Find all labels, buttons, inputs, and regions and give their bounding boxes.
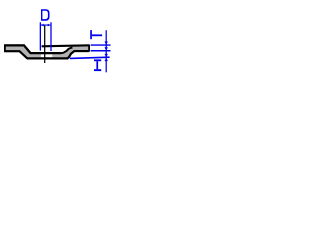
gray fill: right slope band + right rim face bbox=[61, 45, 90, 60]
D dimension: left arrowhead bbox=[41, 24, 44, 27]
outline: rim bottom, slope bottom, web bottom, right rise, right rim bottom bbox=[4, 51, 89, 58]
label T (rotated): stem bbox=[92, 34, 102, 36]
arrowhead up to H line from below bbox=[105, 58, 108, 61]
gray fill: left rim + depressed slope + web bbox=[4, 44, 62, 59]
outline: rim top, slope top, web top bbox=[4, 45, 61, 53]
left end cap bbox=[4, 45, 6, 52]
H extension line (web bottom level) bbox=[70, 57, 110, 58]
top silhouette edge of tilted wheel bbox=[42, 45, 90, 46]
arrowhead down to H line bbox=[105, 54, 108, 57]
D dimension: arrow line bbox=[41, 24, 50, 26]
T dimension: bottom extension line (rim bottom level) bbox=[91, 50, 111, 52]
dimension vertical line at right bbox=[105, 30, 107, 72]
D dimension: right arrowhead bbox=[48, 24, 51, 27]
label H (rotated): crossbar bbox=[96, 61, 98, 69]
arrowhead down to T bottom line bbox=[105, 47, 108, 50]
label T (rotated): crossbar bbox=[90, 30, 92, 39]
background bbox=[0, 0, 113, 74]
arrowhead down to T top line bbox=[105, 42, 108, 45]
label D bbox=[41, 9, 50, 21]
label H (rotated): bottom bar bbox=[94, 69, 101, 71]
T dimension: top extension line (rim top level) bbox=[91, 44, 111, 46]
centerline through hole bbox=[44, 25, 46, 63]
D dimension: right extension line bbox=[50, 22, 52, 51]
arbor hole (white gap in web) bbox=[41, 54, 52, 57]
right end cap bbox=[88, 45, 90, 52]
label H (rotated): top bar bbox=[94, 59, 101, 61]
D dimension: left extension line bbox=[39, 22, 41, 50]
right slope upper edge bbox=[61, 48, 73, 54]
